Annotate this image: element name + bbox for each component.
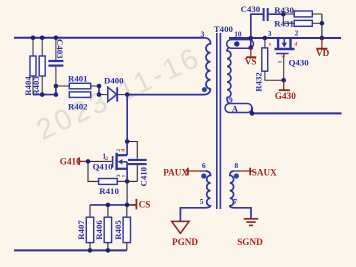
capacitor C410 xyxy=(127,142,148,187)
node dot right bar bottom xyxy=(97,92,102,97)
transformer T400 label xyxy=(214,24,234,34)
svg-text:R431: R431 xyxy=(274,19,294,29)
Q410 pin 2 number xyxy=(116,149,122,152)
transistor Q430 xyxy=(275,38,310,80)
node dot VD junction xyxy=(320,36,325,41)
svg-text:s: s xyxy=(269,41,271,47)
svg-text:VD: VD xyxy=(316,48,330,58)
Q430 pin d name xyxy=(294,41,297,47)
capacitor C430 xyxy=(241,4,284,38)
svg-text:R410: R410 xyxy=(99,186,119,196)
port CS xyxy=(132,199,151,210)
svg-text:C430: C430 xyxy=(241,4,261,14)
svg-text:R403: R403 xyxy=(31,76,41,96)
node dot left bar bottom xyxy=(54,92,59,97)
wire CS net xyxy=(90,204,136,206)
port SAUX xyxy=(240,167,277,177)
resistor R405 xyxy=(113,205,131,251)
svg-text:R407: R407 xyxy=(76,220,86,240)
svg-text:PAUX: PAUX xyxy=(163,167,188,177)
node dot C403 top xyxy=(54,36,59,41)
wire pin9 to right edge xyxy=(252,108,342,114)
Q410 pin 1 label xyxy=(102,152,106,161)
pin 9 pad oval xyxy=(225,104,252,113)
T400 primary winding pins 3-x xyxy=(204,38,211,89)
node dot left bar top xyxy=(54,84,59,89)
resistor R407 xyxy=(76,205,94,251)
wire left node bar xyxy=(55,86,57,95)
node dot G410 xyxy=(86,159,91,164)
wire Q410 source down xyxy=(126,162,128,182)
wire bottom rail xyxy=(14,249,127,251)
node dot R430 left xyxy=(281,12,286,17)
svg-text:s: s xyxy=(120,175,126,177)
svg-text:C403: C403 xyxy=(55,39,65,59)
resistor R431 xyxy=(274,14,322,28)
svg-text:3: 3 xyxy=(268,29,272,38)
node dot CS R406 xyxy=(106,203,111,208)
svg-text:1: 1 xyxy=(277,60,283,63)
svg-text:7: 7 xyxy=(233,197,237,206)
svg-text:D400: D400 xyxy=(104,76,124,86)
resistor R401 xyxy=(56,74,99,89)
port G430 xyxy=(275,80,296,101)
resistor R403 xyxy=(31,39,45,96)
svg-text:10: 10 xyxy=(234,29,242,38)
node dot pin10 top xyxy=(249,36,254,41)
svg-text:R406: R406 xyxy=(94,220,104,240)
Q430 pin 3 label xyxy=(268,29,272,38)
Q410 pin 3 number xyxy=(116,174,122,177)
svg-text:C410: C410 xyxy=(138,166,148,186)
T400 core xyxy=(217,33,221,209)
wire pin6 lead xyxy=(199,170,206,172)
port VD xyxy=(316,38,330,58)
resistor R432 xyxy=(253,38,283,92)
svg-text:SGND: SGND xyxy=(237,237,263,247)
wire Q410 drain up xyxy=(126,142,128,156)
pin 6 label xyxy=(202,161,206,170)
port PAUX xyxy=(163,167,199,177)
resistor R430 xyxy=(274,5,322,17)
ground PGND (power, triangle) xyxy=(172,221,199,247)
pin 8 label xyxy=(235,161,239,170)
Q410 pin s name xyxy=(120,175,126,177)
wire right node bar xyxy=(98,86,100,95)
Q410 pin d name xyxy=(120,149,126,152)
node dot pin9 wire xyxy=(250,111,255,116)
svg-text:Q410: Q410 xyxy=(93,161,114,171)
pin 5 label xyxy=(200,197,204,206)
resistor R406 xyxy=(94,205,112,251)
node dot D400 cathode xyxy=(125,92,130,97)
node dot bottom R406 xyxy=(106,248,111,253)
svg-text:R432: R432 xyxy=(253,72,263,92)
Q430 pin G name xyxy=(281,54,287,58)
svg-text:R402: R402 xyxy=(68,102,88,112)
wire top rail xyxy=(14,37,204,39)
port VS xyxy=(245,48,257,67)
svg-text:6: 6 xyxy=(202,161,206,170)
node dot Q410 drain xyxy=(125,139,130,144)
ground SGND (signal) xyxy=(237,219,263,247)
wire source node down to CS xyxy=(126,181,128,205)
node dot CS R405 xyxy=(125,203,130,208)
T400 aux winding pins 8-7 xyxy=(230,171,251,218)
svg-text:d: d xyxy=(294,41,297,47)
node dot R403 bottom xyxy=(40,92,45,97)
svg-text:8: 8 xyxy=(235,161,239,170)
node dot pin10 pad xyxy=(249,45,254,50)
node dot R404 top xyxy=(31,36,36,41)
node dot R403 top xyxy=(40,36,45,41)
wire D400 node down to Q410 drain xyxy=(126,95,128,142)
T400 secondary winding pins 10-9 xyxy=(227,48,231,104)
svg-text:SAUX: SAUX xyxy=(252,167,277,177)
primary polarity dot xyxy=(202,87,207,92)
secondary polarity dot xyxy=(234,41,239,46)
node dot right bar top xyxy=(97,84,102,89)
svg-text:G: G xyxy=(281,54,287,58)
svg-text:R405: R405 xyxy=(113,220,123,240)
svg-text:9: 9 xyxy=(229,96,233,105)
node dot G430 junction xyxy=(281,78,286,83)
node dot Q410 source xyxy=(125,179,130,184)
node dot R431 right xyxy=(320,21,325,26)
Q430 pin 1 number (rotated) xyxy=(277,60,283,63)
resistor R410 xyxy=(88,161,127,195)
wire R430/R431 right to rail xyxy=(321,14,323,38)
node dot bottom R407 xyxy=(88,248,93,253)
Q410 pin G name xyxy=(104,156,110,160)
svg-text:d: d xyxy=(120,149,126,152)
wire secondary top rail xyxy=(229,37,341,39)
wire pin10 to top rail xyxy=(250,38,252,48)
aux right polarity dot xyxy=(234,173,239,178)
pin 9 label xyxy=(229,96,233,105)
resistor R404 xyxy=(23,39,36,96)
pin 10 pad oval xyxy=(227,40,254,49)
pin 7 label xyxy=(233,197,237,206)
svg-text:VS: VS xyxy=(245,57,257,67)
port G410 xyxy=(60,157,86,167)
svg-text:PGND: PGND xyxy=(172,237,198,247)
svg-text:R430: R430 xyxy=(274,5,294,15)
Q430 pin 2 label xyxy=(295,29,299,38)
svg-text:G430: G430 xyxy=(275,91,296,101)
watermark xyxy=(32,41,207,147)
wire pin8 lead xyxy=(234,170,240,172)
svg-text:2: 2 xyxy=(295,29,299,38)
svg-text:G410: G410 xyxy=(60,157,81,167)
capacitor C403 xyxy=(48,39,65,95)
svg-text:5: 5 xyxy=(200,197,204,206)
svg-text:G: G xyxy=(104,156,110,160)
T400 aux winding pins 6-5 xyxy=(180,171,210,221)
svg-text:T400: T400 xyxy=(214,24,234,34)
svg-text:3: 3 xyxy=(201,30,205,39)
svg-text:Q430: Q430 xyxy=(289,57,310,67)
Q430 pin s name xyxy=(269,41,271,47)
wire left net (R404/R403 bottom to R401/R402) xyxy=(33,94,57,96)
svg-text:CS: CS xyxy=(139,199,151,209)
resistor R402 xyxy=(68,92,91,112)
pin 3 label xyxy=(201,30,205,39)
transistor Q410 xyxy=(93,153,128,172)
wire D400 to transformer primary xyxy=(127,89,210,95)
node dot R432 top xyxy=(263,36,268,41)
aux left polarity dot xyxy=(201,173,206,178)
node A label xyxy=(232,105,238,114)
diode D400 xyxy=(99,76,125,102)
pin 10 label xyxy=(234,29,242,38)
wire G410 to gate xyxy=(88,160,112,162)
svg-text:A: A xyxy=(232,105,238,114)
svg-text:R401: R401 xyxy=(68,74,88,84)
